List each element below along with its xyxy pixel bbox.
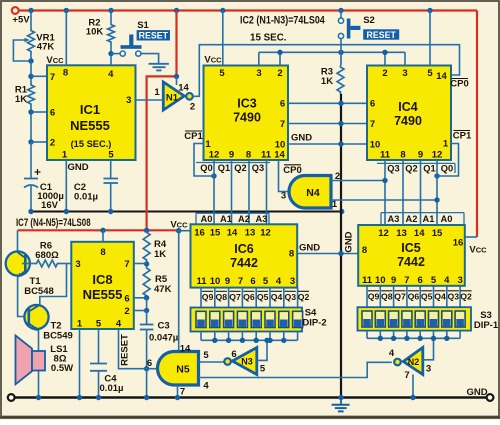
wire IC4 pin5 Vcc [429,11,431,66]
svg-text:6: 6 [147,358,152,369]
svg-text:6: 6 [50,108,55,119]
IC IC8 NE555 [71,242,134,329]
svg-text:5: 5 [427,68,433,79]
svg-text:Q8: Q8 [381,292,393,302]
wire rail2 to T1 collector [17,230,19,252]
wire IC8 pin5 to C4 [98,329,100,364]
svg-text:3: 3 [402,68,407,79]
svg-text:A3: A3 [388,214,400,224]
svg-text:0.047µ: 0.047µ [149,333,178,344]
node N1 Vcc [174,74,179,79]
wire N1 pin14 stub [176,76,178,85]
wire node to pin7 branch [30,61,32,83]
N2 bubble [394,359,401,366]
resistor R2 [108,23,115,44]
inverter N3 [232,348,256,375]
wire IC8 pin6 stub [134,297,147,299]
node gbus C1 [28,209,33,214]
svg-text:12: 12 [260,228,271,239]
svg-text:10: 10 [375,275,386,286]
label S1 RESET box [137,30,170,40]
svg-text:14: 14 [436,71,447,82]
node gbus pin1 [64,209,69,214]
node rail N2 pin7 [410,395,415,400]
wire reset red branch [147,11,177,231]
svg-text:2: 2 [277,68,282,79]
wire IC3 IC4 pin10 link [288,143,367,145]
wire S1 to ground [141,54,159,64]
svg-text:A3: A3 [256,214,268,224]
svg-text:7: 7 [180,387,185,398]
svg-text:5: 5 [219,68,225,79]
svg-text:A1: A1 [423,214,435,224]
svg-text:C3: C3 [158,321,170,332]
svg-text:RESET: RESET [139,31,169,41]
wire rail to VR1 [30,11,32,29]
wire reset bus to IC3 pin3 [258,52,260,65]
svg-text:N5: N5 [176,364,190,376]
svg-text:3: 3 [126,95,131,106]
label row IC4 outputs [377,162,455,164]
svg-text:12: 12 [378,228,389,239]
svg-text:+5V: +5V [12,15,30,26]
svg-text:7442: 7442 [230,256,258,270]
node N4 in2 Q3 [382,178,387,183]
svg-text:14: 14 [178,83,189,94]
node R5 pin6 [144,295,149,300]
svg-text:Q2: Q2 [234,163,246,173]
switch S1 contact right [136,51,141,56]
svg-text:3: 3 [457,275,462,286]
svg-text:7442: 7442 [397,255,425,269]
resistor R6 [22,263,35,265]
node CP1 Q0 IC3 [211,173,216,178]
AND gate N4 [289,176,331,209]
svg-text:Q2: Q2 [460,292,472,302]
svg-text:1K: 1K [321,76,333,87]
svg-text:BC548: BC548 [24,286,54,297]
svg-text:7: 7 [50,72,55,83]
wire N2 pin7 to ground [412,375,414,398]
svg-text:10: 10 [370,139,381,150]
svg-text:13: 13 [396,228,407,239]
wire reset bus to IC4 pin3 [404,52,406,65]
svg-text:47K: 47K [37,42,55,53]
svg-text:Q6: Q6 [408,292,420,302]
wire Q3 column IC3 [266,160,268,224]
svg-text:Q3: Q3 [387,164,399,174]
svg-text:8: 8 [100,247,105,258]
wire Q2 column IC3 [248,160,250,224]
node rail IC8 pin1 [77,395,82,400]
wire N4 output to IC3 pin14 [279,160,288,192]
svg-text:6: 6 [418,275,423,286]
svg-text:VCC: VCC [170,219,188,230]
svg-text:9: 9 [418,149,423,160]
label row IC3 outputs [196,162,270,164]
svg-text:4: 4 [108,69,114,80]
node gbus to GND bus [339,209,344,214]
svg-text:4: 4 [276,276,282,287]
svg-text:15: 15 [432,228,443,239]
svg-text:3: 3 [256,68,261,79]
svg-text:IC5: IC5 [401,241,421,255]
wire N1 output CP0 line [193,45,460,97]
resistor R1 [28,83,35,106]
svg-text:Q6: Q6 [243,292,255,302]
ground terminal left [8,394,15,401]
wire Q1 column IC4 [420,160,422,225]
svg-text:N1: N1 [166,93,179,104]
AND gate N5 [157,352,198,386]
wire pin6 node to pin2 node [30,118,32,142]
wires S3 common to N2 [366,331,368,339]
wire branch to IC1 pin6 [31,111,47,113]
DIP switch S3 [358,307,472,330]
wire IC8 pin1 to ground [79,329,81,398]
+5V terminal [12,7,19,14]
wire N4 in1 [331,199,437,201]
transistor T1 [6,251,30,275]
svg-text:10K: 10K [86,27,104,38]
wire branch to IC1 pin7 [31,75,47,77]
node top rail IC4 pin5 [427,8,432,13]
svg-text:IC3: IC3 [237,97,257,111]
svg-text:IC6: IC6 [234,242,254,256]
node rail2 R4 [144,228,149,233]
wire S2 to reset bus [340,39,342,53]
svg-text:VCC: VCC [46,55,64,66]
wire right red riser to IC5 Vcc [476,11,478,238]
wire IC8 pin7 stub [134,263,147,265]
svg-text:1K: 1K [15,94,27,105]
node reset bus IC3 pin2 [277,50,282,55]
svg-text:RESET: RESET [367,30,397,40]
svg-text:15: 15 [210,228,221,239]
svg-text:VCC: VCC [469,245,487,256]
svg-text:N3: N3 [241,357,253,367]
wires IC5 outputs to S3 [366,286,368,308]
node gbus C2 [108,209,113,214]
IC IC3 7490 [204,66,289,161]
svg-text:A1: A1 [220,214,232,224]
svg-text:15 SEC.: 15 SEC. [250,33,287,44]
wire C3 node to ground rail [146,369,148,398]
node reset bus IC4 pin2 [382,50,387,55]
svg-text:Q7: Q7 [394,292,406,302]
svg-text:680Ω: 680Ω [35,250,59,261]
svg-text:16V: 16V [41,200,59,211]
node top rail R2 [108,8,113,13]
wire VR1 to node [30,54,32,62]
wire GND bus stub to ground symbol [340,398,342,405]
svg-text:2: 2 [50,138,55,149]
wire Q1 column IC3 [231,160,233,224]
svg-text:9: 9 [229,149,234,160]
ground symbol S1 [149,63,169,65]
svg-text:CP1: CP1 [453,131,472,142]
svg-text:0.5W: 0.5W [51,363,73,374]
svg-text:3: 3 [75,259,80,270]
svg-text:Q7: Q7 [229,292,241,302]
svg-text:Q1: Q1 [218,163,230,173]
switch S2 contact top [338,18,343,23]
transistor T2 [24,305,48,329]
capacitor C1 plus sign [35,171,41,173]
inverter N1 [163,82,184,110]
node rail C4 [96,395,101,400]
inverter N2 [403,348,423,375]
svg-text:Q2: Q2 [405,164,417,174]
node rail2 IC6 Vcc [176,228,181,233]
wire C1 to ground bus [30,186,32,212]
wire reset bus to IC3 pin2 [279,52,281,65]
wire pin2 node to C3 [146,311,148,325]
wires S4 common to N3 [200,332,202,341]
svg-text:9: 9 [391,275,396,286]
svg-text:Q3: Q3 [285,292,297,302]
capacitor C2 [104,178,119,180]
svg-text:7: 7 [370,119,375,130]
svg-text:11: 11 [261,149,272,160]
wire N5 in4 from N2 [199,362,392,377]
label row IC5 inputs [381,212,464,214]
svg-text:Q9: Q9 [202,292,214,302]
svg-text:14: 14 [180,344,191,355]
resistor R3 [340,52,342,65]
node pin10 gnd [338,141,343,146]
wire IC3 CP1 loop [194,144,214,177]
svg-text:Q3: Q3 [252,163,264,173]
node top rail S2 [338,8,343,13]
svg-text:8: 8 [289,249,294,260]
svg-text:4: 4 [203,381,209,392]
wire lower Vcc rail [18,229,179,231]
svg-text:11: 11 [196,276,207,287]
node IC6 IC5 gnd [338,251,343,256]
wire T2 emitter to speaker [38,330,40,398]
svg-text:Q5: Q5 [257,292,269,302]
svg-text:A2: A2 [406,214,418,224]
wire Q0 column IC3 [213,160,215,224]
node VR1 wiper [28,58,33,63]
ground symbol main [332,404,350,406]
svg-text:0.01µ: 0.01µ [74,192,98,203]
svg-text:NE555: NE555 [83,287,123,302]
wire IC1 pin3 to N1 [136,99,164,101]
svg-text:NE555: NE555 [70,118,110,133]
node rail C3 [144,395,149,400]
node R4 R5 pin7 [144,261,149,266]
capacitor C1 [24,178,38,180]
svg-text:12: 12 [432,149,443,160]
svg-text:5: 5 [431,275,437,286]
IC IC6 7442 [191,224,298,287]
wire IC1 pin1 to ground bus [65,160,67,212]
svg-text:16: 16 [453,238,464,249]
svg-text:7: 7 [404,370,409,381]
wire rail to S2 [340,11,342,19]
node IC1 pin6 branch [28,109,33,114]
ground terminal right [487,394,494,401]
svg-text:4: 4 [444,275,450,286]
capacitor C3 [140,324,154,326]
node top rail reset-branch [174,8,179,13]
svg-text:2: 2 [190,102,195,113]
svg-text:BC549: BC549 [43,331,73,342]
wire T1 emitter to T2 base [18,277,29,317]
svg-text:7490: 7490 [233,111,261,125]
svg-text:5: 5 [96,319,102,330]
wire Q0 column IC4 [436,160,438,225]
switch S2 contact bottom [338,33,343,38]
wire GND bus vertical [340,94,342,398]
wire IC8 pin4 reset [119,329,157,369]
resistor R5 [143,266,150,298]
svg-text:IC7 (N4-N5)=74LS08: IC7 (N4-N5)=74LS08 [16,217,91,230]
wire Q3 column IC4 [384,160,386,225]
svg-text:IC2 (N1-N3)=74LS04: IC2 (N1-N3)=74LS04 [240,15,325,27]
svg-text:2: 2 [124,306,129,317]
label row IC6 inputs [196,212,269,214]
svg-text:N4: N4 [306,187,320,199]
potentiometer VR1 [28,29,35,54]
svg-text:Q9: Q9 [368,292,380,302]
node reset bus S2 [338,50,343,55]
wire pin6 to pin2 [146,298,148,311]
wire C4 to ground rail [98,371,100,398]
svg-text:14: 14 [414,228,425,239]
node rail speaker [36,395,41,400]
svg-text:1: 1 [443,139,449,150]
svg-text:Q4: Q4 [271,292,283,302]
svg-text:IC1: IC1 [80,102,100,117]
node pin7 gnd [338,121,343,126]
node rail N5 pin7 [175,395,180,400]
wire IC6 pin8 GND link [297,253,358,255]
svg-text:5: 5 [203,350,209,361]
wire R1 to pin6 branch [30,106,32,118]
node N4 in1 Q0 [434,197,439,202]
svg-text:7: 7 [238,276,243,287]
svg-text:Q8: Q8 [216,292,228,302]
svg-text:16: 16 [194,228,205,239]
svg-text:IC8: IC8 [92,272,112,287]
svg-text:1: 1 [77,319,83,330]
svg-text:GND: GND [466,387,487,398]
svg-text:RESET: RESET [120,334,131,366]
svg-text:1K: 1K [154,249,166,260]
svg-text:5: 5 [108,150,114,161]
wire IC3 IC4 pin6 link [288,102,367,104]
svg-text:7: 7 [404,275,409,286]
wire node to C1 [30,142,32,178]
wire N5 pin7 to ground [177,385,179,398]
node top rail IC1 pin8 [64,8,69,13]
svg-text:N2: N2 [408,357,420,367]
wire rail to R2 [110,11,112,23]
svg-text:DIP-2: DIP-2 [302,318,326,329]
svg-text:6: 6 [124,294,129,305]
svg-text:47K: 47K [154,284,172,295]
wire IC1 pin8 Vcc [65,11,67,66]
svg-text:GND: GND [299,243,320,254]
svg-text:12: 12 [209,149,220,160]
svg-text:7: 7 [280,119,285,130]
node IC1 pin7 branch [28,74,33,79]
wire N5 in5 to N3 [199,361,225,363]
node rail GND bus [338,395,343,400]
switch S1 contact left [120,51,125,56]
svg-text:5: 5 [260,364,266,375]
svg-text:A0: A0 [201,214,213,224]
svg-text:Q3: Q3 [448,292,460,302]
svg-text:11: 11 [380,149,391,160]
svg-text:6: 6 [250,276,255,287]
wire C3 to reset node [146,330,148,369]
IC IC5 7442 [358,225,465,286]
svg-text:Q4: Q4 [434,292,446,302]
svg-text:GND: GND [291,133,312,144]
svg-text:0.01µ: 0.01µ [100,383,124,394]
wire R6 to IC8 pin3 [60,263,72,265]
svg-text:CP0: CP0 [450,79,468,90]
svg-text:6: 6 [231,349,236,360]
node pin2 C3 [144,308,149,313]
wire IC5 Vcc stub [465,236,477,238]
svg-text:A2: A2 [238,214,250,224]
svg-text:6: 6 [370,99,375,110]
svg-text:4: 4 [389,348,395,359]
wire N2 input from S3 [423,338,434,360]
svg-text:Q2: Q2 [298,292,310,302]
switch S2 actuator [347,19,351,39]
wire IC3 pin5 Vcc [222,11,224,66]
svg-text:Q1: Q1 [423,164,435,174]
resistor R4 [143,230,150,262]
node CP1 Q0 IC4 [434,173,439,178]
wire IC4 CP1 loop [437,144,459,177]
wire IC1 ground bus [31,211,342,213]
svg-text:7490: 7490 [394,114,422,128]
wire R2 to S1 node [110,44,112,65]
svg-text:8: 8 [400,149,405,160]
svg-text:8: 8 [246,149,251,160]
svg-text:3: 3 [290,276,295,287]
svg-text:GND: GND [344,231,355,252]
node top rail VR1 [28,8,33,13]
wire IC8 pin2 stub [134,310,147,312]
svg-text:8: 8 [63,68,68,79]
svg-text:A0: A0 [441,214,453,224]
switch S1 actuator [121,45,142,49]
svg-text:IC4: IC4 [398,100,418,114]
wire C2 to ground bus [110,183,112,212]
svg-text:8: 8 [362,245,367,256]
svg-text:VCC: VCC [204,55,222,66]
wire bottom ground rail [15,396,487,399]
N1 bubble [186,93,193,100]
wire reset bus [259,51,405,53]
speaker LS1 [16,336,33,385]
wire IC3 IC4 pin7 link [288,123,367,125]
svg-text:DIP-1: DIP-1 [474,320,499,331]
svg-text:2: 2 [382,68,387,79]
wire +5V top rail [19,9,478,11]
svg-text:S1: S1 [137,20,149,31]
svg-text:9: 9 [225,276,230,287]
svg-text:13: 13 [245,228,256,239]
